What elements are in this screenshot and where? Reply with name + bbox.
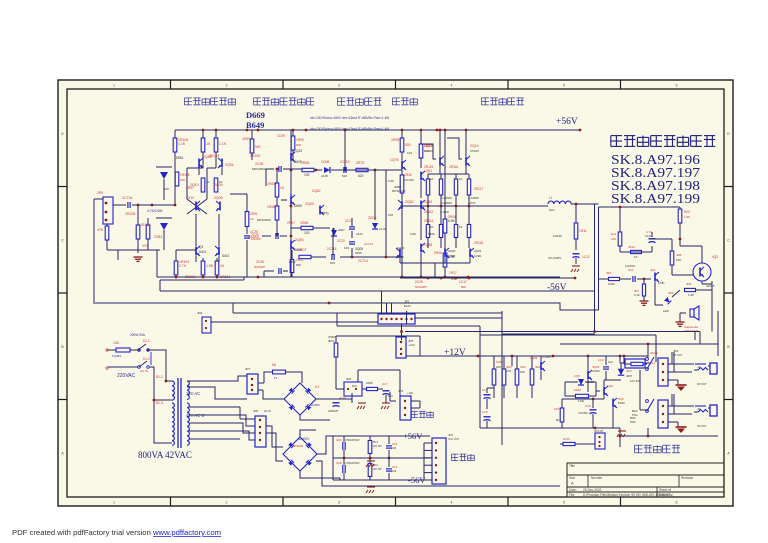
svg-text:3Q22: 3Q22 <box>474 249 482 253</box>
svg-text:25-Dec-2002: 25-Dec-2002 <box>583 488 602 492</box>
svg-text:Revision: Revision <box>681 476 693 480</box>
svg-text:2Q14: 2Q14 <box>470 144 479 148</box>
svg-text:4Q3: 4Q3 <box>712 255 718 259</box>
svg-text:W2.7W: W2.7W <box>373 444 382 448</box>
svg-text:4C4: 4C4 <box>392 465 398 469</box>
svg-text:JP7: JP7 <box>245 367 251 371</box>
svg-text:2R114: 2R114 <box>424 219 433 223</box>
svg-text:10K: 10K <box>611 237 616 241</box>
svg-text:C5100: C5100 <box>470 149 479 153</box>
svg-text:470.5W: 470.5W <box>404 178 414 182</box>
svg-text:J3: J3 <box>697 407 701 411</box>
svg-text:2Q06: 2Q06 <box>214 196 223 200</box>
svg-text:D669: D669 <box>246 110 265 120</box>
svg-text:1: 1 <box>113 84 115 88</box>
svg-text:1Q76: 1Q76 <box>390 158 399 162</box>
svg-text:B649: B649 <box>246 120 264 130</box>
svg-text:100K: 100K <box>608 282 615 286</box>
svg-text:4R2: 4R2 <box>535 365 541 369</box>
svg-text:5401: 5401 <box>199 250 207 254</box>
svg-text:103: 103 <box>407 151 412 155</box>
svg-text:2C716: 2C716 <box>122 196 132 200</box>
svg-text:1: 1 <box>113 501 115 505</box>
svg-text:J1: J1 <box>697 365 701 369</box>
svg-text:1.1K: 1.1K <box>219 142 227 146</box>
svg-text:10: 10 <box>430 177 434 181</box>
svg-text:47K: 47K <box>97 228 104 232</box>
svg-text:900: 900 <box>296 263 301 267</box>
svg-text:2R117: 2R117 <box>474 187 483 191</box>
svg-text:MPS250W: MPS250W <box>392 189 406 193</box>
svg-text:SP OUT: SP OUT <box>697 424 707 428</box>
svg-text:603A98Y: 603A98Y <box>254 265 266 269</box>
svg-text:F1: F1 <box>274 376 278 380</box>
svg-text:2Q09: 2Q09 <box>214 183 223 187</box>
svg-text:2R72: 2R72 <box>356 161 364 165</box>
svg-text:D669: D669 <box>294 204 302 208</box>
svg-text:D:\Program Files\Design Explor: D:\Program Files\Design Explorer 99 SE\ … <box>583 493 671 497</box>
svg-text:3: 3 <box>338 84 340 88</box>
svg-text:1K: 1K <box>206 142 211 146</box>
svg-text:2123: 2123 <box>356 232 363 236</box>
svg-text:4C3: 4C3 <box>392 442 398 446</box>
svg-text:170k: 170k <box>578 399 585 403</box>
svg-text:900: 900 <box>461 285 466 289</box>
svg-text:4700UF/63V: 4700UF/63V <box>345 438 360 442</box>
svg-text:JR12: JR12 <box>628 245 635 249</box>
svg-text:1C25: 1C25 <box>250 230 258 234</box>
svg-text:10K: 10K <box>676 258 681 262</box>
svg-text:1R99: 1R99 <box>391 138 399 142</box>
svg-text:11-20: 11-20 <box>379 227 387 231</box>
svg-text:510: 510 <box>330 261 335 265</box>
svg-text:1C12: 1C12 <box>582 255 590 259</box>
svg-text:220VAC: 220VAC <box>117 373 136 379</box>
svg-text:800VA 42VAC: 800VA 42VAC <box>138 450 192 460</box>
svg-text:4C9: 4C9 <box>336 438 342 442</box>
svg-text:A1015: A1015 <box>706 284 715 288</box>
svg-text:Idc=130 BVceo=160V Icm=15m: Idc=130 BVceo=160V Icm=15mA fT=80MHz Pcm… <box>310 116 389 120</box>
svg-text:10: 10 <box>430 225 434 229</box>
svg-text:1R15: 1R15 <box>563 437 570 441</box>
svg-text:2R108: 2R108 <box>125 212 135 216</box>
svg-text:100: 100 <box>388 213 393 217</box>
svg-text:603A98Y: 603A98Y <box>415 285 427 289</box>
svg-text:1.1K: 1.1K <box>178 142 186 146</box>
svg-text:22K: 22K <box>496 365 501 369</box>
svg-text:5406: 5406 <box>428 232 435 236</box>
svg-text:C181: C181 <box>658 281 665 285</box>
svg-text:L1: L1 <box>549 196 553 200</box>
svg-text:1R49: 1R49 <box>242 137 250 141</box>
svg-text:4D4: 4D4 <box>668 291 674 295</box>
svg-text:100R: 100R <box>366 381 373 385</box>
svg-text:2: 2 <box>226 501 228 505</box>
svg-text:2Q10: 2Q10 <box>190 183 199 187</box>
svg-text:2R9: 2R9 <box>97 191 103 195</box>
svg-text:R11: R11 <box>611 232 617 236</box>
svg-text:2Q93: 2Q93 <box>305 202 314 206</box>
svg-text:Size: Size <box>569 476 575 480</box>
svg-text:A: A <box>571 481 574 486</box>
svg-text:4007: 4007 <box>626 374 633 378</box>
svg-text:1C17: 1C17 <box>459 280 467 284</box>
svg-text:5: 5 <box>563 84 565 88</box>
svg-text:100: 100 <box>304 173 310 177</box>
svg-text:2Q58: 2Q58 <box>203 155 212 159</box>
svg-text:VCC OUT: VCC OUT <box>448 438 460 441</box>
svg-text:RS506: RS506 <box>294 444 304 448</box>
svg-text:4RL1: 4RL1 <box>328 339 335 343</box>
svg-text:6: 6 <box>676 501 678 505</box>
svg-text:2C714: 2C714 <box>358 259 368 263</box>
svg-text:900: 900 <box>405 143 411 147</box>
svg-text:JP6: JP6 <box>253 409 259 413</box>
svg-text:2Q53: 2Q53 <box>295 238 304 242</box>
svg-text:B1-3: B1-3 <box>156 401 163 405</box>
svg-text:1K: 1K <box>220 264 225 268</box>
svg-text:JP1: JP1 <box>404 300 410 304</box>
svg-text:2Q94: 2Q94 <box>225 163 234 167</box>
svg-text:1R105: 1R105 <box>180 173 190 177</box>
svg-text:JR3: JR3 <box>197 311 203 315</box>
svg-text:1.9K: 1.9K <box>684 215 690 219</box>
svg-text:1K3: 1K3 <box>352 384 357 388</box>
svg-text:1R99: 1R99 <box>296 138 304 142</box>
svg-text:PN1: PN1 <box>632 413 638 417</box>
svg-text:0.33/5W: 0.33/5W <box>441 196 452 200</box>
svg-text:5K1: 5K1 <box>373 440 378 444</box>
svg-text:2R116: 2R116 <box>449 165 458 169</box>
svg-text:470: 470 <box>142 244 148 248</box>
svg-text:510: 510 <box>342 174 347 178</box>
svg-text:C20: C20 <box>506 369 512 373</box>
svg-text:2V10: 2V10 <box>186 196 194 200</box>
svg-text:C1815: C1815 <box>592 369 600 373</box>
svg-text:3: 3 <box>338 501 340 505</box>
svg-text:File:: File: <box>569 493 575 497</box>
svg-text:104: 104 <box>392 446 397 450</box>
svg-text:1R40: 1R40 <box>404 173 412 177</box>
svg-text:2: 2 <box>226 84 228 88</box>
svg-text:C1815: C1815 <box>542 355 551 359</box>
svg-text:2R115: 2R115 <box>424 165 433 169</box>
svg-text:JR8: JR8 <box>676 253 682 257</box>
svg-text:5uH: 5uH <box>549 208 555 212</box>
svg-text:1Q51: 1Q51 <box>424 169 432 173</box>
svg-text:4C1: 4C1 <box>628 268 634 272</box>
svg-text:2Q13: 2Q13 <box>424 144 433 148</box>
svg-text:1Q9: 1Q9 <box>607 384 613 388</box>
svg-text:1R65: 1R65 <box>300 221 308 225</box>
svg-text:1C8: 1C8 <box>585 404 591 408</box>
svg-text:JP2: JP2 <box>448 433 454 437</box>
svg-text:K1: K1 <box>315 385 319 389</box>
svg-text:2R91: 2R91 <box>250 212 258 216</box>
svg-text:R20: R20 <box>684 210 690 214</box>
svg-text:JP4: JP4 <box>398 389 404 393</box>
svg-text:5406: 5406 <box>355 251 362 255</box>
svg-text:AC IN: AC IN <box>264 410 271 413</box>
svg-text:5A400V: 5A400V <box>298 437 310 441</box>
svg-text:JR0: JR0 <box>686 282 692 286</box>
svg-text:620: 620 <box>358 174 364 178</box>
svg-text:K1-2: K1-2 <box>143 357 150 361</box>
svg-text:Sheet of: Sheet of <box>659 488 671 492</box>
svg-text:1C5: 1C5 <box>482 410 488 414</box>
svg-text:SP OUT: SP OUT <box>697 382 707 386</box>
svg-text:1.9K: 1.9K <box>688 293 694 297</box>
svg-text:Q1: Q1 <box>199 245 204 249</box>
svg-text:1R04: 1R04 <box>267 182 275 186</box>
svg-text:2200/25: 2200/25 <box>328 409 339 413</box>
svg-text:104: 104 <box>388 394 393 398</box>
svg-text:1Q34: 1Q34 <box>294 149 302 153</box>
svg-text:2R44: 2R44 <box>448 215 456 219</box>
svg-text:2R45: 2R45 <box>434 251 442 255</box>
svg-text:2C714: 2C714 <box>364 242 373 246</box>
svg-text:6: 6 <box>676 84 678 88</box>
svg-text:W2.7W: W2.7W <box>373 467 382 471</box>
svg-text:4Q15: 4Q15 <box>592 365 600 369</box>
svg-text:1K: 1K <box>250 217 254 221</box>
svg-text:4R1: 4R1 <box>606 271 612 275</box>
svg-text:PN1: PN1 <box>630 420 636 424</box>
svg-text:K1-1: K1-1 <box>143 339 150 343</box>
svg-text:PDF created with pdfFactory tr: PDF created with pdfFactory trial versio… <box>12 528 221 537</box>
svg-text:2D06: 2D06 <box>368 216 376 220</box>
svg-text:47U/100V: 47U/100V <box>548 256 561 260</box>
svg-text:1Q25: 1Q25 <box>530 356 538 360</box>
svg-text:5: 5 <box>563 501 565 505</box>
svg-text:SK.8.A97.199: SK.8.A97.199 <box>611 191 700 206</box>
svg-text:C10V: C10V <box>645 234 652 238</box>
svg-text:0.33/5W: 0.33/5W <box>468 196 479 200</box>
svg-text:10: 10 <box>459 225 463 229</box>
svg-text:2.7K: 2.7K <box>179 264 187 268</box>
svg-text:200W 00A: 200W 00A <box>130 333 146 337</box>
svg-text:2V83: 2V83 <box>154 235 162 239</box>
svg-text:1D06: 1D06 <box>321 160 329 164</box>
svg-text:10K: 10K <box>180 178 185 182</box>
svg-text:15K: 15K <box>520 370 525 374</box>
svg-text:112/50V: 112/50V <box>625 264 635 268</box>
svg-text:103: 103 <box>344 246 349 250</box>
svg-text:1R16: 1R16 <box>574 388 582 392</box>
svg-text:10A: 10A <box>113 341 120 345</box>
svg-text:1R8: 1R8 <box>496 360 502 364</box>
svg-text:1R7: 1R7 <box>554 407 560 411</box>
svg-text:2Q52: 2Q52 <box>312 189 321 193</box>
svg-text:1C09: 1C09 <box>277 134 285 138</box>
svg-text:LF9D: LF9D <box>474 254 482 258</box>
svg-text:2R07: 2R07 <box>287 221 295 225</box>
svg-text:MAIN: MAIN <box>404 304 411 308</box>
svg-text:1C2: 1C2 <box>598 358 604 362</box>
svg-text:4: 4 <box>451 84 453 88</box>
svg-text:1R08: 1R08 <box>267 205 275 209</box>
svg-text:2007: 2007 <box>289 260 296 264</box>
svg-text:3Q20: 3Q20 <box>448 249 456 253</box>
svg-text:4C8: 4C8 <box>336 461 342 465</box>
svg-text:900: 900 <box>296 143 301 147</box>
svg-text:Number: Number <box>591 476 603 480</box>
svg-text:2C28: 2C28 <box>255 162 263 166</box>
svg-text:1Q16: 1Q16 <box>397 246 405 250</box>
svg-text:1R17: 1R17 <box>449 271 457 275</box>
svg-text:102: 102 <box>608 360 613 364</box>
svg-text:1K: 1K <box>634 255 638 259</box>
svg-text:3.3K: 3.3K <box>388 179 394 183</box>
svg-text:Date:: Date: <box>569 488 577 492</box>
svg-text:JR1: JR1 <box>673 349 679 353</box>
svg-text:1R109: 1R109 <box>140 223 150 227</box>
svg-text:4C7: 4C7 <box>382 382 388 386</box>
svg-text:+12F: +12F <box>407 391 413 395</box>
svg-text:LED: LED <box>663 309 670 313</box>
svg-text:MPS250W: MPS250W <box>257 218 271 222</box>
svg-text:2Q62: 2Q62 <box>405 200 414 204</box>
svg-text:12V DC: 12V DC <box>630 379 640 383</box>
svg-text:1R07: 1R07 <box>298 248 306 252</box>
svg-text:3.6K: 3.6K <box>410 232 416 236</box>
svg-text:2C22: 2C22 <box>337 239 345 243</box>
svg-text:4.7K/0.6W: 4.7K/0.6W <box>147 209 163 213</box>
svg-text:4148: 4148 <box>321 174 328 178</box>
svg-text:D669: D669 <box>618 401 625 405</box>
svg-text:4700UF/63V: 4700UF/63V <box>345 461 360 465</box>
svg-text:+12V: +12V <box>408 343 415 347</box>
svg-text:6K: 6K <box>556 418 560 422</box>
svg-text:5.1K: 5.1K <box>634 293 640 297</box>
svg-text:10: 10 <box>459 177 463 181</box>
svg-text:FU364: FU364 <box>112 354 121 358</box>
svg-text:2C26: 2C26 <box>256 260 264 264</box>
svg-text:B1-2: B1-2 <box>156 375 163 379</box>
svg-text:2R112: 2R112 <box>424 210 433 214</box>
svg-text:4RG1: 4RG1 <box>650 351 658 355</box>
svg-text:5551: 5551 <box>176 156 184 160</box>
svg-text:555g: 555g <box>322 211 329 215</box>
svg-text:2C216: 2C216 <box>327 247 337 251</box>
svg-text:1R11: 1R11 <box>579 229 587 233</box>
svg-text:C5200: C5200 <box>424 149 433 153</box>
svg-text:4: 4 <box>451 501 453 505</box>
svg-text:4R4: 4R4 <box>520 365 526 369</box>
svg-text:Title: Title <box>569 464 575 468</box>
svg-text:1.5K: 1.5K <box>206 264 214 268</box>
svg-text:10K: 10K <box>164 187 169 191</box>
svg-text:2R118: 2R118 <box>474 241 483 245</box>
svg-text:104: 104 <box>392 469 397 473</box>
svg-text:4D4: 4D4 <box>626 369 632 373</box>
svg-text:2007: 2007 <box>338 228 345 232</box>
svg-text:2C26: 2C26 <box>415 280 423 284</box>
svg-text:AC IN: AC IN <box>140 369 148 373</box>
svg-text:1958: 1958 <box>397 255 404 259</box>
svg-text:473A63Y: 473A63Y <box>248 235 260 239</box>
svg-text:Drawn by:: Drawn by: <box>659 493 673 497</box>
svg-text:5401: 5401 <box>222 254 230 258</box>
svg-text:JR2: JR2 <box>346 377 352 381</box>
svg-text:1D6: 1D6 <box>574 374 580 378</box>
svg-text:4A100V: 4A100V <box>310 403 320 407</box>
svg-text:900: 900 <box>255 145 261 149</box>
svg-text:100: 100 <box>304 231 310 235</box>
svg-text:LF9D: LF9D <box>448 254 456 258</box>
svg-text:SP OUT: SP OUT <box>673 354 683 357</box>
svg-text:2R69: 2R69 <box>301 161 309 165</box>
svg-text:47U/16V: 47U/16V <box>578 411 588 415</box>
svg-text:+56V: +56V <box>556 117 578 127</box>
svg-text:4.33/5W: 4.33/5W <box>441 201 452 205</box>
svg-text:6.9K: 6.9K <box>448 219 456 223</box>
svg-text:100/W: 100/W <box>553 234 562 238</box>
svg-text:4Q1: 4Q1 <box>650 268 656 272</box>
svg-text:JP3 RT: JP3 RT <box>594 429 604 433</box>
svg-text:MPS250W: MPS250W <box>252 167 266 171</box>
